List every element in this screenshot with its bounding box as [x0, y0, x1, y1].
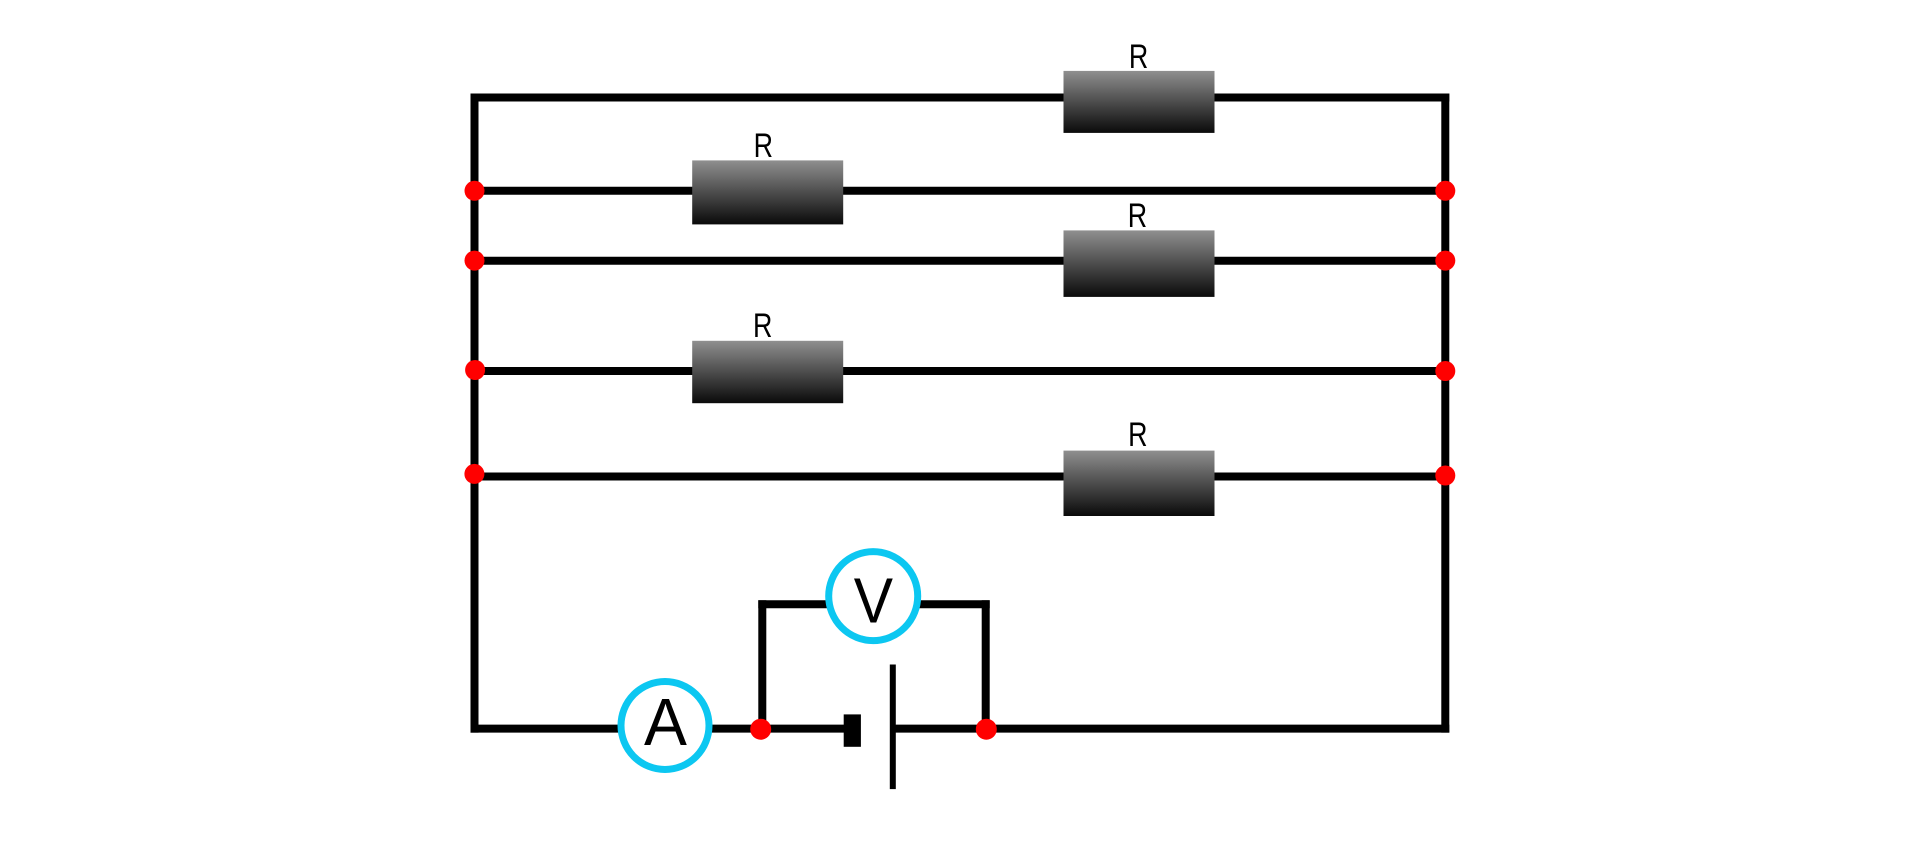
node left 4 [465, 360, 485, 380]
node right 3 [1435, 251, 1455, 271]
resistor R4 [692, 307, 843, 403]
wire voltmeter left riser [758, 600, 766, 729]
wire voltmeter right riser [982, 600, 990, 729]
wire left bus [471, 94, 479, 733]
wire bottom left segment [471, 725, 846, 733]
svg-text:R: R [753, 307, 772, 345]
wire branch 2 [475, 187, 1446, 195]
node left 2 [465, 181, 485, 201]
wire voltmeter top horizontal [758, 600, 989, 608]
resistor R1 [1064, 38, 1215, 133]
wire branch 4 [475, 367, 1446, 375]
voltmeter V [829, 552, 918, 641]
node voltmeter right tap [976, 719, 997, 740]
svg-text:V: V [854, 565, 893, 637]
wire branch 3 [475, 257, 1446, 265]
resistor R2 [692, 127, 843, 224]
resistor R3 [1064, 197, 1215, 297]
node right 2 [1435, 181, 1455, 201]
node right 5 [1435, 466, 1455, 486]
resistor R5 [1064, 416, 1215, 516]
battery BT1 negative plate [844, 714, 861, 746]
node left 5 [464, 464, 484, 484]
svg-text:R: R [1128, 197, 1147, 235]
wire right bus [1441, 94, 1449, 733]
node left 3 [465, 251, 485, 271]
svg-text:A: A [644, 685, 687, 759]
ammeter A [621, 682, 709, 770]
battery BT1 positive plate [890, 665, 896, 790]
svg-text:R: R [1129, 38, 1148, 76]
svg-text:R: R [754, 127, 773, 165]
node voltmeter left tap [750, 719, 771, 740]
node right 4 [1435, 361, 1455, 381]
wire top branch 1 [471, 94, 1450, 102]
svg-text:R: R [1128, 416, 1147, 454]
wire bottom right segment [894, 725, 1449, 733]
wire branch 5 [475, 473, 1446, 481]
